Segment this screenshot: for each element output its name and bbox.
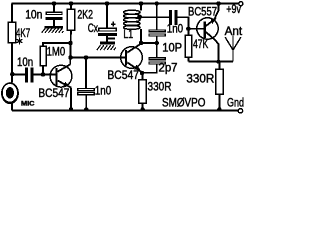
wire C5 to base node bbox=[178, 17, 189, 29]
junction dot C6/ground bbox=[84, 107, 88, 111]
svg-text:1n0: 1n0 bbox=[167, 24, 183, 36]
wire R4 to output node bbox=[187, 57, 189, 62]
resistor R1 4K7 bbox=[8, 22, 15, 43]
wire Q1 collector up bbox=[69, 58, 71, 65]
svg-text:47K: 47K bbox=[193, 39, 209, 51]
asterisk bbox=[17, 38, 23, 45]
capacitor C3 10P bbox=[149, 30, 165, 36]
wire R3 to base node bbox=[42, 66, 44, 75]
+9V rail bbox=[11, 2, 238, 4]
wire Cx to ground symbol bbox=[106, 36, 108, 42]
capacitor C5 1n0 bbox=[169, 10, 178, 25]
junction dot C3 node bbox=[155, 41, 159, 45]
wire output node bbox=[188, 61, 233, 63]
svg-text:10n: 10n bbox=[25, 10, 42, 22]
plus sign Cx bbox=[111, 22, 116, 27]
junction dot rail/Q3 emitter bbox=[216, 1, 220, 5]
wire Q2 base bbox=[71, 57, 125, 59]
wire mic to ground rail bbox=[11, 104, 13, 111]
svg-text:2p7: 2p7 bbox=[159, 62, 178, 74]
resistor R6 330R bbox=[216, 69, 223, 94]
svg-text:+9v: +9v bbox=[226, 4, 241, 16]
junction dot base Q3 bbox=[186, 27, 191, 32]
junction dot collector node Q2 bbox=[139, 41, 143, 45]
wire base node to C6 bbox=[85, 58, 87, 88]
svg-text:10P: 10P bbox=[162, 42, 182, 54]
antenna bbox=[225, 36, 241, 62]
junction dot Q1 base bbox=[41, 72, 45, 76]
junction dot rail/L1 bbox=[139, 1, 143, 5]
resistor R4 47K bbox=[185, 35, 192, 57]
svg-text:1n0: 1n0 bbox=[95, 85, 111, 97]
wire rail to C1 bbox=[53, 3, 55, 12]
wire C1 to ground symbol bbox=[53, 20, 55, 26]
minus sign Cx bbox=[107, 37, 115, 39]
resistor R5 330R bbox=[139, 80, 146, 103]
Gnd terminal bbox=[238, 109, 242, 113]
svg-text:4K7: 4K7 bbox=[16, 28, 30, 40]
junction dot Q1 collector/base wire bbox=[68, 55, 72, 59]
capacitor C4 2p7 bbox=[149, 58, 165, 64]
junction dot rail/C1 bbox=[52, 1, 56, 5]
svg-text:330R: 330R bbox=[186, 74, 214, 86]
microphone MIC bbox=[1, 82, 19, 104]
junction dot mic node bbox=[10, 72, 14, 76]
svg-text:Cx: Cx bbox=[88, 23, 98, 35]
wire R5 to ground rail bbox=[142, 103, 144, 110]
svg-text:330R: 330R bbox=[148, 81, 172, 93]
wire 4K7 to mic bbox=[11, 43, 13, 83]
ground (C1) bbox=[42, 26, 64, 33]
junction dot C6 node bbox=[84, 55, 88, 59]
ground (Cx) bbox=[97, 42, 116, 50]
svg-text:SMØVPO: SMØVPO bbox=[162, 97, 205, 109]
wire feedback top bbox=[43, 43, 71, 46]
junction dot Q2 emitter bbox=[140, 71, 144, 75]
svg-text:Ant: Ant bbox=[225, 26, 243, 38]
wire base node to R4 bbox=[187, 29, 189, 35]
svg-text:BC557: BC557 bbox=[188, 7, 217, 19]
junction dot R5/ground bbox=[140, 107, 144, 111]
svg-text:1M0: 1M0 bbox=[47, 46, 66, 58]
wire mic node to C2 bbox=[12, 74, 25, 76]
wire left branch top bbox=[11, 3, 13, 22]
resistor R3 1M0 bbox=[40, 46, 46, 65]
svg-text:BC547: BC547 bbox=[107, 70, 139, 82]
wire rail to C3 bbox=[156, 3, 158, 29]
wire base node to Q3 bbox=[188, 28, 203, 30]
junction dot Q1 emitter/ground bbox=[69, 107, 73, 111]
wire node to C4 bbox=[156, 43, 158, 57]
wire output node to R6 bbox=[218, 62, 220, 70]
capacitor C1 10n bbox=[46, 12, 62, 19]
wire collector node down bbox=[70, 43, 72, 58]
wire rail to Cx bbox=[106, 3, 108, 28]
wire C2 to Q1 base bbox=[34, 74, 56, 76]
inductor L1 bbox=[124, 10, 141, 29]
wire C4 to emitter node bbox=[142, 64, 157, 73]
svg-text:Gnd: Gnd bbox=[227, 97, 244, 109]
transistor Q1 BC547 bbox=[50, 64, 72, 87]
transistor Q3 BC557 bbox=[197, 3, 219, 61]
ground rail bbox=[12, 110, 238, 112]
junction dot rail/R2 bbox=[69, 1, 73, 5]
wire C6 to ground rail bbox=[85, 95, 87, 110]
wire L1 to collector node bbox=[140, 29, 142, 43]
junction dot rail/Cx bbox=[105, 1, 109, 5]
svg-text:10n: 10n bbox=[17, 57, 33, 69]
capacitor C2 10n bbox=[25, 67, 34, 82]
capacitor C6 1n0 bbox=[78, 88, 95, 94]
wire Q1 emitter to ground rail bbox=[70, 88, 72, 110]
wire C3 to node bbox=[156, 36, 158, 43]
svg-text:2K2: 2K2 bbox=[77, 10, 93, 22]
svg-text:BC547: BC547 bbox=[38, 88, 69, 100]
junction dot L1 tap bbox=[138, 15, 142, 19]
junction dot Q1 collector node bbox=[68, 41, 72, 45]
resistor R2 2K2 bbox=[67, 9, 74, 30]
junction dot rail/C3 bbox=[155, 1, 159, 5]
wire R2 to collector node bbox=[70, 30, 72, 43]
junction dot output node bbox=[216, 59, 220, 63]
wire L1 tap to C5 bbox=[140, 16, 169, 18]
+9v terminal bbox=[239, 2, 243, 6]
capacitor Cx electrolytic bbox=[98, 28, 117, 36]
wire emitter node to R5 bbox=[141, 73, 143, 80]
svg-text:MIC: MIC bbox=[21, 100, 35, 107]
wire rail to L1 bbox=[140, 3, 142, 10]
transistor Q2 BC547 bbox=[121, 44, 143, 73]
wire R6 to ground rail bbox=[218, 94, 220, 110]
svg-text:L1: L1 bbox=[123, 29, 133, 41]
junction dot R6/ground bbox=[217, 107, 221, 111]
wire collector node bbox=[141, 42, 159, 44]
wire rail to R2 bbox=[70, 3, 72, 9]
